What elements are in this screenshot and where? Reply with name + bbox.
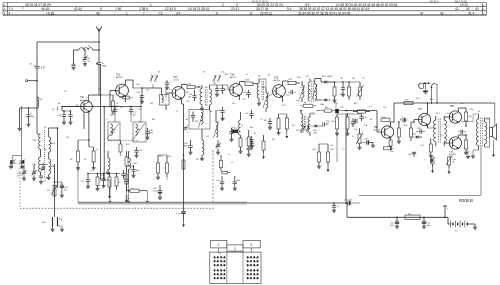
capacitor C37b [245, 110, 254, 119]
capacitor C35 [351, 119, 357, 127]
resistor R30 [327, 144, 334, 166]
svg-text:2k: 2k [453, 162, 455, 164]
capacitor C16 A2 [111, 107, 118, 117]
ground [189, 152, 193, 154]
earphone jack [419, 82, 430, 88]
svg-text:C4x: C4x [245, 113, 248, 115]
svg-text:22k: 22k [292, 125, 295, 127]
svg-text:A7: A7 [310, 90, 312, 93]
capacitor C27 [134, 147, 143, 155]
resistor R12 1.5 [127, 188, 148, 192]
ferrite core [312, 81, 313, 103]
svg-text:33 34 35 36 37 38 39 40 41 42: 33 34 35 36 37 38 39 40 41 42 44 45 [298, 11, 351, 15]
ground [429, 155, 433, 157]
resistor R53 [279, 114, 289, 139]
svg-text:C19: C19 [186, 101, 189, 103]
capacitor C9 [72, 64, 76, 66]
svg-text:50k: 50k [352, 78, 355, 80]
wire TS7 coll [427, 102, 429, 114]
coil S6 [49, 159, 56, 174]
svg-text:S1: S1 [44, 127, 46, 129]
svg-text:A5x: A5x [250, 126, 253, 129]
wire TS8 coll [458, 108, 466, 112]
IF2 primary [257, 79, 259, 103]
svg-text:9V: 9V [455, 231, 458, 233]
capacitor C28 [216, 176, 224, 188]
wire TS7 base [411, 120, 419, 123]
wire TS7 emitter [426, 124, 428, 128]
svg-text:A7k: A7k [237, 179, 240, 182]
screen partition [212, 150, 214, 204]
svg-text:2k: 2k [362, 78, 364, 80]
svg-text:5p: 5p [88, 61, 91, 63]
svg-text:1k: 1k [96, 149, 98, 151]
trimmer X [183, 125, 188, 134]
wire [13, 156, 22, 161]
svg-text:R3x: R3x [332, 121, 335, 123]
svg-text:4B: 4B [58, 103, 61, 105]
capacitor C44 150uF [153, 185, 162, 197]
svg-text:S21: S21 [447, 113, 450, 115]
capacitor C30 [247, 148, 251, 154]
wire [41, 172, 49, 177]
svg-text:4a: 4a [15, 163, 18, 165]
svg-text:C4e: C4e [354, 129, 357, 131]
ground [92, 168, 96, 170]
wire [146, 191, 148, 204]
svg-text:x2: x2 [231, 162, 233, 164]
wire left frame [21, 106, 23, 160]
svg-text:R1x: R1x [272, 139, 275, 141]
trimmer C34b [32, 165, 37, 178]
ground [423, 83, 428, 93]
volume pot R3 [47, 184, 58, 196]
wire TS4 emitter [239, 96, 241, 100]
wire [20, 107, 38, 109]
wire [210, 85, 230, 90]
capacitor C12p [26, 107, 35, 124]
resistor R54 [96, 174, 100, 191]
wire [319, 143, 328, 145]
wire TS1 base [62, 107, 81, 112]
ground [335, 133, 350, 135]
resistor R39 [404, 100, 413, 105]
wire [36, 68, 38, 97]
svg-text:OA8: OA8 [313, 131, 317, 134]
battery plus terminal [443, 206, 449, 218]
wire [57, 127, 59, 188]
IF1 secondary [210, 85, 212, 110]
capacitor C18 [136, 88, 144, 101]
resistor R14 [187, 84, 199, 89]
ground [76, 168, 80, 170]
capacitor C35b [351, 118, 357, 127]
svg-text:S19: S19 [440, 135, 443, 137]
variable capacitor C13 [39, 163, 48, 171]
svg-text:C3x: C3x [351, 125, 355, 127]
electrolytic C44b [390, 217, 399, 228]
wire [427, 127, 435, 129]
resistor R24 [333, 81, 336, 100]
ground [395, 226, 399, 228]
ground [230, 139, 234, 141]
svg-text:S4: S4 [52, 109, 54, 111]
wire antenna top [37, 41, 100, 43]
band switch [213, 75, 217, 83]
resistor R38 [410, 122, 413, 141]
wire left drop [36, 42, 38, 66]
wire [19, 108, 21, 128]
capacitor C34c [323, 121, 330, 127]
svg-text:2k: 2k [44, 180, 46, 182]
resistor R36 [384, 147, 395, 150]
svg-text:43 44: 43 44 [74, 7, 82, 11]
svg-text:4k7: 4k7 [340, 94, 343, 96]
svg-text:TS3: TS3 [173, 76, 178, 79]
svg-text:23 05 11: 23 05 11 [260, 11, 272, 15]
svg-text:R3x: R3x [416, 98, 419, 100]
ground [233, 188, 237, 190]
wire supply vertical [345, 115, 347, 204]
wire [73, 50, 75, 64]
capacitor C41 [424, 159, 432, 163]
ground [69, 122, 73, 124]
svg-text:+6 38: +6 38 [46, 11, 54, 15]
svg-text:C1x: C1x [216, 180, 220, 182]
IF1 primary [198, 85, 202, 105]
wire AF line [344, 110, 377, 115]
volume R26 [349, 82, 364, 100]
svg-text:C: C [106, 119, 108, 121]
trimmer C34a [17, 165, 27, 178]
dashed link [108, 140, 139, 142]
svg-text:R11: R11 [150, 103, 153, 105]
ground arrow [431, 167, 434, 173]
svg-text:S17: S17 [312, 114, 315, 116]
ground [83, 64, 87, 66]
svg-text:1x: 1x [246, 74, 248, 76]
ground [247, 154, 251, 156]
resistor R20 [222, 171, 231, 174]
svg-text:A02: A02 [262, 86, 265, 89]
svg-text:150u: 150u [153, 191, 157, 193]
wire y103 supply [394, 102, 495, 104]
svg-text:C5x: C5x [383, 107, 386, 109]
svg-text:S20: S20 [436, 113, 439, 115]
trimmer C10 5p [83, 49, 91, 63]
svg-text:S3: S3 [44, 149, 46, 151]
capacitor C23 [229, 128, 238, 139]
svg-text:2B: 2B [196, 159, 199, 161]
coil S12 [214, 110, 219, 138]
resistor R35 [389, 140, 392, 150]
svg-text:A12: A12 [152, 118, 155, 121]
parts location table [3, 0, 487, 15]
svg-text:2k: 2k [17, 176, 20, 178]
coil S10 [129, 151, 138, 174]
capacitor C38b [264, 118, 272, 127]
svg-text:S12: S12 [306, 76, 309, 78]
diode X3 OA85 [310, 125, 322, 135]
svg-text:47: 47 [420, 11, 424, 15]
svg-text:2: 2 [222, 3, 224, 7]
svg-text:C1b: C1b [136, 84, 139, 86]
ground [220, 188, 224, 190]
ground arrow [492, 140, 495, 157]
wire [473, 149, 479, 151]
svg-text:22k: 22k [66, 137, 69, 139]
wire [98, 64, 100, 95]
resistor R7 2k2 [112, 95, 120, 115]
svg-text:C18: C18 [136, 92, 141, 94]
ferrite core [206, 87, 207, 107]
svg-text:C4x: C4x [408, 154, 411, 156]
svg-text:1k: 1k [400, 119, 402, 121]
resistor R56 [115, 174, 121, 191]
svg-text:R205 B: R205 B [459, 198, 473, 203]
capacitor C20 [165, 80, 169, 89]
ground arrow [182, 221, 185, 227]
wire [138, 95, 141, 122]
resistor R43 [431, 157, 434, 167]
capacitor C40 [458, 130, 466, 134]
resistor R9 [89, 147, 95, 168]
svg-text:A5x: A5x [325, 106, 328, 109]
svg-text:C: C [31, 113, 33, 115]
svg-text:R2b: R2b [297, 77, 300, 79]
ground [106, 172, 110, 174]
wire TS1 collector [88, 94, 101, 101]
ground arrow [448, 168, 451, 174]
svg-text:A7C: A7C [322, 75, 326, 78]
svg-text:R2x: R2x [313, 149, 317, 151]
svg-text:6B: 6B [264, 120, 267, 122]
dashed boundary vertical [19, 168, 21, 208]
coil S1 [32, 134, 40, 149]
svg-text:1k: 1k [169, 89, 171, 91]
svg-text:8: 8 [250, 11, 252, 15]
svg-text:A1: A1 [138, 128, 141, 131]
svg-text:S3B: S3B [32, 164, 36, 166]
svg-text:4k7: 4k7 [186, 92, 189, 94]
wire [142, 84, 162, 88]
svg-text:C1x: C1x [213, 83, 216, 85]
ground [9, 160, 13, 169]
resistor R55 [108, 174, 111, 199]
svg-text:A07: A07 [134, 162, 138, 165]
svg-text:AF117: AF117 [80, 99, 87, 102]
svg-text:7: 7 [143, 11, 145, 15]
svg-text:42: 42 [455, 7, 459, 11]
capacitor C39 [416, 128, 425, 134]
svg-text:2x: 2x [228, 154, 230, 156]
svg-text:TS1: TS1 [80, 96, 85, 99]
svg-text:1 50: 1 50 [115, 7, 121, 11]
svg-text:R3: R3 [47, 190, 50, 192]
wire [101, 95, 114, 107]
capacitor C19 A2 [189, 90, 197, 101]
svg-text:A1: A1 [370, 118, 372, 121]
svg-text:OC45: OC45 [173, 79, 179, 81]
svg-text:16 18 21 28 41: 16 18 21 28 41 [188, 7, 209, 11]
ground [60, 195, 64, 197]
chassis outline [359, 147, 481, 195]
ground [333, 100, 337, 102]
wire [485, 137, 490, 148]
svg-text:1M: 1M [340, 78, 343, 80]
driver transformer secondary [444, 116, 446, 146]
driver transformer primary [434, 116, 436, 146]
wire mid vertical [166, 177, 168, 180]
ground [358, 147, 362, 149]
wire [336, 132, 338, 162]
coil S16 [300, 110, 303, 133]
ground [18, 128, 22, 130]
wire [101, 180, 112, 203]
svg-text:84 8 76 36: 84 8 76 36 [455, 0, 467, 3]
band switch [306, 125, 310, 133]
wire [103, 106, 105, 180]
capacitor C27b [127, 165, 141, 175]
svg-text:A2: A2 [254, 132, 256, 135]
ground [257, 103, 261, 105]
wire [100, 64, 102, 180]
electrolytic C36 40u [361, 139, 373, 146]
svg-text:C11: C11 [98, 89, 101, 91]
svg-text:TS4: TS4 [230, 74, 235, 77]
svg-text:S23: S23 [486, 119, 489, 121]
resistor R50 [332, 114, 339, 133]
svg-text:A00: A00 [404, 124, 407, 127]
svg-text:0.47: 0.47 [139, 150, 144, 152]
resistor R28 [316, 106, 335, 112]
svg-text:2M: 2M [146, 90, 149, 92]
svg-text:C5x 100u: C5x 100u [344, 200, 353, 202]
ferrite core [44, 130, 46, 177]
svg-text:20 31: 20 31 [231, 7, 239, 11]
svg-text:C14: C14 [57, 115, 62, 117]
capacitor C34b [250, 140, 254, 150]
svg-text:R4x: R4x [469, 116, 473, 118]
capacitor C26 [184, 140, 193, 152]
diode X2 OA79 [315, 99, 331, 107]
ground [39, 182, 43, 184]
resistor R41 [465, 112, 473, 124]
ground [317, 166, 321, 168]
coil S17 [308, 113, 310, 136]
svg-text:8: 8 [100, 7, 102, 11]
agc row wire [87, 171, 120, 175]
shield box coil S11 [189, 110, 210, 130]
resistor R27 [300, 102, 316, 107]
capacitor C24 A2A [145, 128, 153, 137]
ground [158, 197, 162, 199]
svg-text:A25: A25 [354, 102, 357, 105]
ground [268, 127, 272, 129]
svg-text:S5: S5 [40, 99, 43, 101]
svg-text:C3x: C3x [364, 117, 367, 119]
dashed boundary bottom [20, 207, 214, 209]
IF3 primary [308, 79, 310, 102]
svg-text:+: + [424, 159, 426, 161]
switch unit diagram [210, 240, 261, 283]
ground [32, 178, 36, 180]
svg-text:0.1: 0.1 [369, 107, 372, 109]
capacitor C32 [341, 81, 345, 96]
ground [27, 124, 31, 126]
svg-text:10k: 10k [326, 123, 329, 125]
svg-text:R13: R13 [159, 156, 162, 158]
svg-text:5 6: 5 6 [287, 7, 292, 11]
resistor R11 [125, 175, 128, 191]
resistor R19 [220, 155, 223, 171]
svg-text:+: + [402, 116, 404, 118]
svg-text:AF11x: AF11x [274, 79, 281, 82]
capacitor C14 [57, 110, 71, 122]
svg-text:C4d: C4d [296, 100, 299, 102]
svg-text:C9: C9 [64, 91, 66, 93]
resistor R16 [245, 80, 258, 86]
wire TS1 emitter [84, 111, 90, 147]
wire [259, 79, 273, 98]
electrolytic C37 [400, 116, 408, 122]
wire battery feed [347, 203, 448, 217]
svg-text:TS6: TS6 [374, 126, 379, 129]
ground [466, 150, 470, 159]
svg-text:R36: R36 [390, 151, 393, 153]
pcb gray bus [78, 202, 247, 204]
transistor TS9 [449, 137, 462, 159]
svg-text:3 4: 3 4 [176, 11, 181, 15]
ground [62, 122, 66, 124]
capacitor C17 A2 [129, 107, 138, 117]
wire TS4 coll [240, 82, 245, 85]
svg-text:R16: R16 [246, 80, 251, 82]
coil S10b [108, 151, 110, 172]
ground arrow [262, 153, 265, 159]
wire TS3 emitter [182, 99, 184, 104]
wire [49, 128, 58, 137]
coil S3 [32, 157, 40, 172]
svg-text:40 26 27 30 31: 40 26 27 30 31 [252, 0, 269, 3]
svg-text:S9: S9 [203, 72, 205, 74]
svg-text:R9: R9 [84, 159, 86, 161]
wire TS3 base [166, 88, 172, 98]
svg-text:C2: C2 [100, 175, 102, 177]
trimmer C2a [10, 160, 18, 169]
wire [128, 174, 130, 203]
resistor R15 [158, 155, 169, 177]
ground [200, 105, 204, 111]
svg-text:+: + [447, 207, 449, 210]
ferrite core2 [305, 116, 306, 130]
resistor R52 [277, 114, 281, 135]
svg-text:R10: R10 [126, 144, 129, 146]
wire TS9 base [444, 142, 450, 144]
svg-text:C21: C21 [242, 99, 245, 101]
transistor TS3 [172, 76, 185, 100]
output transformer primary [476, 114, 478, 150]
wire [494, 103, 496, 124]
antenna [96, 26, 102, 42]
speaker LS [490, 124, 497, 140]
electrolytic C16 40u [54, 181, 69, 195]
capacitor C50 [82, 174, 91, 189]
svg-text:A4: A4 [210, 110, 212, 113]
svg-text:42: 42 [440, 11, 444, 15]
svg-text:TS7: TS7 [418, 108, 423, 111]
resistor R51 [346, 113, 349, 133]
